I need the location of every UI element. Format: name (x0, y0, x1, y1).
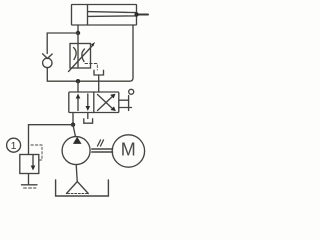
pump (62, 137, 90, 165)
check valve (43, 54, 53, 68)
node lower junction (76, 79, 80, 83)
tank main (56, 180, 109, 196)
label 1 (7, 138, 21, 152)
wire valve A-port stub (77, 81, 79, 92)
wire valve tank-port stub (98, 75, 100, 92)
lever actuator (119, 89, 134, 110)
motor M (112, 135, 144, 167)
wire check valve bottom to lower junction (47, 68, 76, 82)
relief valve 1 (20, 125, 42, 188)
directional valve 4/2 (69, 92, 119, 113)
wire node to pump (73, 125, 75, 137)
wire junction to throttle (77, 33, 79, 44)
wire rod-side return (80, 25, 133, 81)
cylinder (72, 5, 149, 26)
tank (throttle drain) (94, 70, 104, 75)
wire pump suction (76, 165, 77, 182)
wire branch to check valve (47, 33, 78, 54)
shaft (92, 140, 113, 152)
strainer (67, 182, 89, 194)
dashed drain line (85, 64, 97, 71)
wire valve P-port down (72, 113, 74, 124)
wire cylinder cap port down (77, 25, 79, 32)
node pump junction (71, 123, 75, 127)
svg-text:M: M (121, 140, 136, 160)
wire to relief valve (29, 124, 72, 126)
throttle valve (flow control) (69, 42, 96, 72)
node upper junction (76, 31, 80, 35)
tank (valve T port) (84, 113, 93, 124)
svg-text:1: 1 (11, 140, 17, 152)
